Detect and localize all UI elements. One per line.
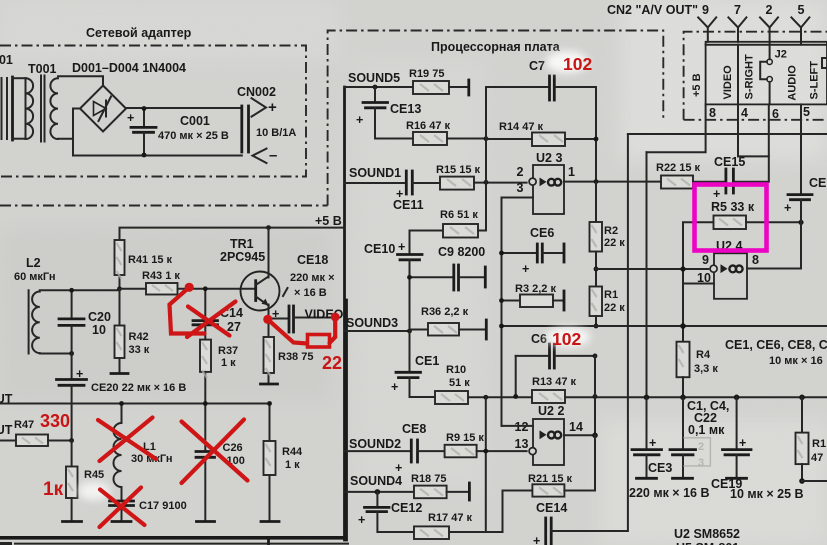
connector table box [706,42,827,105]
wire pin4 stub [738,155,769,157]
wire sound4 [345,491,415,493]
wire sound1 [345,182,406,184]
wire base [120,288,147,290]
node collector rail [266,225,271,230]
bias bus y326 [502,325,827,327]
wire sound2 [345,450,411,452]
wire divider to pin9 [596,268,708,270]
wire pin14 [564,434,595,436]
node C20 bottom [69,351,74,356]
wire pin6 route [733,104,768,181]
ground R44 [261,520,279,523]
red scribble emitter [263,315,272,324]
scan streaks (decorative) [22,84,803,536]
red X over C17 [100,488,145,528]
capacitor CE19 [734,395,740,401]
node divider [594,267,599,272]
jumper fragment right edge [822,58,827,68]
tuner box bottom border [0,536,348,540]
wire secondary bottom to AC node [58,139,73,155]
node base wire R41 [117,286,122,291]
processor board dashed border [328,31,664,206]
wire L2 top [40,289,120,291]
wire plug to transformer primary [13,77,26,79]
capacitor CE3 [646,397,648,449]
wire DC top rail [126,107,242,109]
wire pin1 [564,181,661,183]
red X over C26 [182,420,248,484]
wire stub below box [267,539,270,545]
bottom edge line [15,543,348,545]
wire pin8 route [647,104,706,152]
capacitor C22 [682,397,684,449]
tuner box right border [343,87,346,540]
bottom left scan blob [0,542,12,545]
wire out bus y403 [0,403,269,405]
node C20 top [69,288,74,293]
node R4 top [680,323,686,329]
node C001 top [142,106,147,111]
ground L1 C17 [112,520,131,523]
wire emitter [268,305,270,320]
magenta highlight box R5 [695,185,767,251]
column C6 R13 [594,356,596,435]
wire L2 bottom [40,353,72,355]
wire sound5 [345,86,414,88]
ground R38 [261,383,278,386]
wire pin5 route [800,104,802,194]
CN2 dashed border [684,32,827,120]
node C001 bottom [142,153,147,158]
noise texture [0,0,1,1]
column mix U22 [485,397,487,531]
wire pin12 [502,425,534,427]
feedback columns C7 [485,87,487,231]
node R47 [69,438,74,443]
ghost bracket [684,438,711,466]
ground C26 [197,520,215,523]
red resistor sketch [308,335,330,348]
wire pin4 route [737,104,739,156]
wire video bus [628,133,827,135]
red scribble base [185,283,194,292]
wire bridge left vertex down [73,109,81,141]
wire DC bottom rail [73,155,242,157]
wire sound3 [345,330,410,332]
ground R42 [111,372,128,375]
red X over L1 [98,418,156,462]
wire pin3 [502,198,534,426]
wire collector [268,228,270,278]
column pin8 CE3 [646,152,648,449]
wire secondary top to bridge [58,76,103,85]
wire pin7 video column [737,45,739,105]
column video to CE14 [627,134,628,531]
adapter dashed border [0,46,306,177]
red X over C14 [187,302,236,338]
ground R45 [63,520,82,523]
